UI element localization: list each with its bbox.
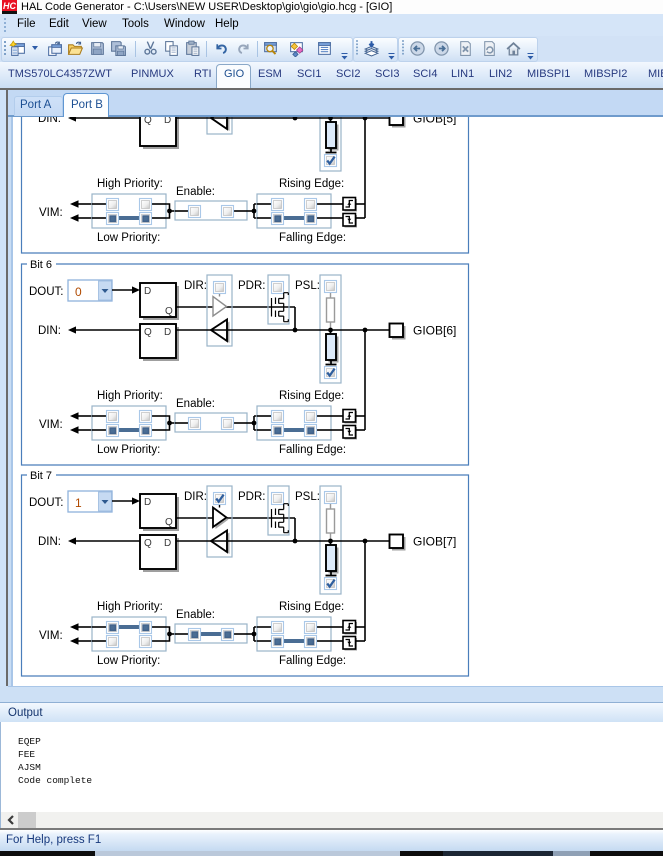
rising edge detector bit6 (343, 410, 357, 424)
PDR group box bit5 (268, 63, 289, 112)
DIR checkbox bit6 (214, 282, 226, 294)
title bar (0, 0, 663, 14)
svg-text:GIOB[5]: GIOB[5] (413, 117, 456, 126)
node enable join bit6 (247, 416, 257, 430)
svg-text:PDR:: PDR: (238, 280, 265, 292)
svg-text:D: D (164, 538, 171, 549)
Rising Edge label bit6 (279, 390, 344, 402)
DIR label bit7 (184, 491, 207, 503)
PSL pull checkbox bit5 (325, 69, 337, 81)
DOUT combobox bit6 value 0 (68, 280, 112, 301)
svg-text:Q: Q (144, 117, 152, 126)
flip-flop FF2 bit5 (DIN register) (140, 112, 179, 149)
PDR group box bit7 (268, 486, 289, 535)
svg-text:Low Priority:: Low Priority: (97, 232, 160, 244)
Bit 5 group box frame (22, 47, 469, 253)
PSL label bit6 (295, 280, 320, 292)
edge polarity bit5 selector box (257, 194, 331, 228)
High Priority label bit5 (97, 178, 163, 190)
junction pad-driver bit7 (293, 539, 298, 544)
flip-flop FF1 bit6 (DOUT register) (140, 283, 179, 320)
junction pad-driver bit5 (293, 116, 298, 121)
DIR label bit5 (184, 68, 207, 80)
open-drain CMOS pair Q7 bit7 (272, 504, 289, 533)
svg-text:Q: Q (165, 306, 173, 317)
svg-text:PSL:: PSL: (295, 491, 320, 503)
PDR label bit5 (238, 68, 265, 80)
dark frame top (0, 88, 663, 90)
pad GIOB[6] (390, 324, 457, 340)
DIR group box bit6 (207, 275, 232, 346)
PSL pull checkbox bit6 (325, 281, 337, 293)
Bit 6 group box frame (22, 259, 469, 465)
resistor pull-up bit7 (disabled) (327, 504, 335, 541)
svg-text:Low Priority:: Low Priority: (97, 444, 160, 456)
VIM label bit6 (39, 419, 63, 431)
svg-text:0: 0 (75, 285, 82, 299)
junction pull bit7 (328, 539, 333, 544)
DIR group box bit5 (207, 63, 232, 134)
wire Q to pad driver bit6 (176, 307, 295, 330)
bottom of diagram panel (0, 686, 663, 702)
wire VIM high arrow bit6 (70, 412, 92, 420)
Enable label bit6 (176, 398, 215, 410)
DIR label bit6 (184, 280, 207, 292)
falling edge detector bit5 (343, 214, 357, 228)
svg-text:Bit 6: Bit 6 (30, 259, 52, 271)
resistor pull-up bit5 (disabled) (327, 81, 335, 118)
interrupt enable box bit5 (175, 201, 247, 220)
Low Priority label bit7 (97, 655, 160, 667)
PDR label bit7 (238, 491, 265, 503)
PSL enable checkbox bit5 (checked) (325, 155, 337, 167)
interrupt enable box bit6 (175, 413, 247, 432)
node priority join bit6 (166, 416, 175, 430)
svg-text:GIOB[6]: GIOB[6] (413, 324, 456, 338)
taskbar strip (0, 851, 663, 856)
PDR checkbox bit7 (272, 493, 284, 505)
wire VIM high arrow bit5 (70, 200, 92, 208)
Enable label bit7 (176, 609, 215, 621)
buffer U7B input receiver bit7 (211, 531, 230, 555)
PSL group box bit6 (320, 275, 341, 383)
svg-text:D: D (164, 327, 171, 338)
PDR group box bit6 (268, 275, 289, 324)
svg-text:Rising Edge:: Rising Edge: (279, 601, 344, 613)
ground bit7 (326, 575, 337, 577)
buffer U7A output driver bit7 (213, 505, 229, 529)
buffer U6B input receiver bit6 (211, 320, 230, 344)
module tab strip (0, 62, 663, 88)
PSL pull checkbox bit7 (325, 492, 337, 504)
flip-flop FF1 bit5 (DOUT register) (140, 71, 179, 108)
High Priority label bit6 (97, 390, 163, 402)
content margins (8, 117, 13, 686)
wire pad net bit6 (176, 329, 390, 331)
wire pad net bit5 (176, 117, 390, 119)
svg-text:DIN:: DIN: (38, 117, 61, 125)
svg-text:Q: Q (165, 517, 173, 528)
junction interrupt tap bit5 (363, 116, 368, 121)
wire VIM low arrow bit7 (70, 637, 92, 645)
DOUT label bit7 (29, 497, 64, 509)
output header (0, 702, 663, 722)
DIR checkbox bit7 (214, 493, 226, 505)
selected GIO tab (216, 64, 251, 89)
left window margin (0, 90, 6, 689)
DOUT combobox bit5 value 0 (68, 68, 112, 89)
svg-text:VIM:: VIM: (39, 630, 63, 642)
GIO port schematic (13, 117, 663, 686)
DIR checkbox bit5 (214, 70, 226, 82)
menu bar (0, 14, 663, 36)
svg-text:GIOB[7]: GIOB[7] (413, 535, 456, 549)
DIR group box bit7 (207, 486, 232, 557)
open-drain CMOS pair Q5 bit5 (272, 81, 289, 110)
High Priority label bit7 (97, 601, 163, 613)
PSL group box bit7 (320, 486, 341, 594)
wire edge detect pins bit6 (331, 416, 365, 430)
Rising Edge label bit7 (279, 601, 344, 613)
wire edge detect pins bit7 (331, 627, 365, 641)
DOUT label bit6 (29, 286, 64, 298)
wire VIM low arrow bit6 (70, 426, 92, 434)
VIM label bit5 (39, 207, 63, 219)
app icon (2, 0, 17, 12)
svg-text:D: D (144, 286, 151, 297)
junction interrupt tap bit7 (363, 539, 368, 544)
Falling Edge label bit7 (279, 655, 346, 667)
wire DIN arrow bit7 (68, 537, 140, 544)
junction pad-driver bit6 (293, 328, 298, 333)
Falling Edge label bit5 (279, 232, 346, 244)
open-drain CMOS pair Q6 bit6 (272, 293, 289, 322)
svg-text:Enable:: Enable: (176, 609, 215, 621)
DIN label bit6 (38, 325, 61, 337)
svg-text:VIM:: VIM: (39, 419, 63, 431)
svg-text:Falling Edge:: Falling Edge: (279, 444, 346, 456)
PSL enable checkbox bit6 (checked) (325, 367, 337, 379)
svg-text:Falling Edge:: Falling Edge: (279, 232, 346, 244)
flip-flop FF2 bit6 (DIN register) (140, 324, 179, 361)
buffer U6A output driver bit6 (213, 294, 227, 316)
svg-text:High Priority:: High Priority: (97, 178, 163, 190)
wire VIM low arrow bit5 (70, 214, 92, 222)
svg-text:Low Priority:: Low Priority: (97, 655, 160, 667)
svg-text:Rising Edge:: Rising Edge: (279, 178, 344, 190)
junction pull bit5 (328, 116, 333, 121)
node enable join bit5 (247, 204, 257, 218)
status bar (0, 830, 663, 851)
PDR label bit6 (238, 280, 265, 292)
falling edge detector bit7 (343, 637, 357, 651)
wire Q to pad driver bit7 (176, 518, 295, 541)
junction pull bit6 (328, 328, 333, 333)
PSL label bit7 (295, 491, 320, 503)
wire DIN arrow bit6 (68, 326, 140, 333)
svg-text:Enable:: Enable: (176, 398, 215, 410)
PDR checkbox bit6 (272, 282, 284, 294)
flip-flop FF1 bit7 (DOUT register) (140, 494, 179, 531)
wire interrupt tap vertical bit6 (364, 330, 366, 430)
pad GIOB[7] (390, 535, 457, 551)
svg-text:VIM:: VIM: (39, 207, 63, 219)
resistor pull-down bit7 (enabled) (326, 541, 339, 576)
ground bit5 (326, 152, 337, 154)
svg-text:DIN:: DIN: (38, 325, 61, 337)
PSL group box bit5 (320, 63, 341, 171)
wire pad net bit7 (176, 540, 390, 542)
wire DOUT to flip-flop bit7 (112, 497, 140, 504)
wire interrupt tap vertical bit7 (364, 541, 366, 641)
output text area (0, 722, 663, 812)
DIN label bit5 (38, 113, 61, 125)
pad GIOB[5] (390, 112, 457, 128)
edge polarity bit6 selector box (257, 406, 331, 440)
svg-text:Bit 7: Bit 7 (30, 470, 52, 482)
priority level bit6 selector box (92, 406, 166, 440)
PSL label bit5 (295, 68, 320, 80)
wire DOUT to flip-flop bit5 (112, 74, 140, 81)
ground bit6 (326, 364, 337, 366)
DIN label bit7 (38, 536, 61, 548)
PSL enable checkbox bit7 (checked) (325, 578, 337, 590)
Port A tab (14, 96, 63, 116)
svg-text:Falling Edge:: Falling Edge: (279, 655, 346, 667)
svg-text:Q: Q (144, 327, 152, 338)
wire DOUT to flip-flop bit6 (112, 286, 140, 293)
DOUT label bit5 (29, 74, 64, 86)
toolbar (0, 36, 663, 62)
VIM label bit7 (39, 630, 63, 642)
node enable join bit7 (247, 627, 257, 641)
wire DIN arrow bit5 (68, 114, 140, 121)
svg-text:DOUT:: DOUT: (29, 286, 64, 298)
resistor pull-up bit6 (disabled) (327, 293, 335, 330)
resistor pull-down bit5 (enabled) (326, 118, 339, 153)
wire interrupt tap vertical bit5 (364, 118, 366, 218)
svg-text:Rising Edge:: Rising Edge: (279, 390, 344, 402)
resistor pull-down bit6 (enabled) (326, 330, 339, 365)
svg-text:PSL:: PSL: (295, 280, 320, 292)
rising edge detector bit5 (343, 198, 357, 212)
priority level bit5 selector box (92, 194, 166, 228)
Bit 7 group box frame (22, 470, 469, 676)
svg-text:High Priority:: High Priority: (97, 390, 163, 402)
edge polarity bit7 selector box (257, 617, 331, 651)
junction interrupt tap bit6 (363, 328, 368, 333)
svg-text:DOUT:: DOUT: (29, 497, 64, 509)
wire Q to pad driver bit5 (176, 95, 295, 118)
svg-text:Q: Q (144, 538, 152, 549)
node priority join bit7 (166, 627, 175, 641)
svg-text:High Priority:: High Priority: (97, 601, 163, 613)
horizontal scrollbar (0, 812, 663, 828)
interrupt enable box bit7 (175, 624, 247, 643)
wire edge detect pins bit5 (331, 204, 365, 218)
buffer U5B input receiver bit5 (211, 108, 230, 132)
svg-text:DIR:: DIR: (184, 491, 207, 503)
Port B tab (selected) (63, 93, 109, 118)
svg-text:1: 1 (75, 496, 82, 510)
Low Priority label bit6 (97, 444, 160, 456)
svg-text:Enable:: Enable: (176, 186, 215, 198)
port tab band (8, 90, 663, 117)
svg-text:DIR:: DIR: (184, 280, 207, 292)
DOUT combobox bit7 value 1 (68, 491, 112, 512)
svg-text:D: D (144, 497, 151, 508)
node priority join bit5 (166, 204, 175, 218)
flip-flop FF2 bit7 (DIN register) (140, 535, 179, 572)
svg-text:D: D (164, 117, 171, 126)
wire VIM high arrow bit7 (70, 623, 92, 631)
priority level bit7 selector box (92, 617, 166, 651)
Enable label bit5 (176, 186, 215, 198)
Low Priority label bit5 (97, 232, 160, 244)
svg-text:DIN:: DIN: (38, 536, 61, 548)
falling edge detector bit6 (343, 426, 357, 440)
PDR checkbox bit5 (272, 70, 284, 82)
rising edge detector bit7 (343, 621, 357, 635)
buffer U5A output driver bit5 (213, 82, 227, 104)
Rising Edge label bit5 (279, 178, 344, 190)
svg-text:PDR:: PDR: (238, 491, 265, 503)
Falling Edge label bit6 (279, 444, 346, 456)
